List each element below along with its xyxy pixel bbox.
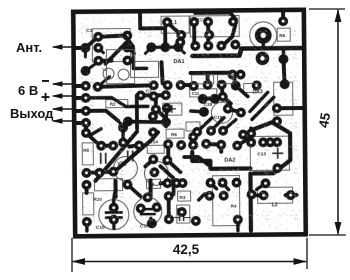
wire da1 row join: [151, 45, 178, 49]
wire vt stub: [154, 100, 158, 109]
wire Z1 top bus: [195, 13, 236, 20]
bottom-left extension line: [71, 238, 73, 272]
pads L1 cluster: [162, 17, 186, 47]
plus sign: [42, 93, 50, 101]
svg-text:6 В: 6 В: [18, 83, 38, 98]
wire top power band: [192, 48, 302, 56]
pads mid small: [148, 103, 172, 121]
pads minus branch: [93, 82, 103, 92]
PCB board outline: [73, 10, 306, 237]
wire minus branch diag: [98, 77, 110, 87]
pads band joints: [198, 94, 220, 117]
pads c15: [109, 203, 119, 225]
resistor R8 outline: [277, 28, 290, 41]
wire da2 elbow: [237, 133, 251, 145]
wire da3 to border: [277, 106, 303, 110]
wire vt2 out: [228, 109, 241, 113]
pad left extra: [80, 66, 90, 76]
wire da2 row: [206, 144, 221, 145]
pads bottom r3: [177, 207, 187, 217]
wire da3 diag 1: [250, 92, 268, 111]
height dimension top arrowhead: [335, 9, 342, 23]
wire C1 diag: [105, 41, 128, 64]
wire c13 row: [263, 140, 277, 144]
wire center elbow: [86, 133, 100, 146]
wire long diagonal A: [95, 131, 137, 180]
wire da2 diag c: [223, 120, 236, 131]
pads da3 col: [252, 79, 290, 113]
height dimension line: [337, 10, 339, 234]
capacitor C11 outline: [190, 89, 217, 97]
wire bottom border stub: [236, 220, 239, 231]
wire mid band drop: [233, 73, 236, 84]
right-bottom extension line: [309, 234, 346, 236]
transistor VT3 outline: [144, 161, 168, 185]
pads r10 col: [81, 180, 91, 227]
wire c16 bottom stub: [151, 218, 152, 223]
wire right long vertical: [248, 173, 253, 230]
height dimension bottom arrowhead: [335, 222, 342, 236]
pad mid link: [118, 123, 128, 133]
pads bottom left row: [81, 167, 118, 178]
wire antenna stub: [74, 46, 85, 50]
wire band joint row: [203, 97, 215, 101]
output arrow 1: [52, 106, 75, 112]
capacitor C3 plus mark: [168, 105, 176, 113]
pads T1 feed: [278, 16, 288, 26]
wire da2 diag a: [197, 118, 212, 132]
resistor R6 outline: [166, 129, 184, 138]
transistor VT1 outline: [113, 156, 137, 180]
pad T1 big: [255, 27, 272, 44]
wire T1 big pad link: [262, 44, 265, 48]
width dimension left arrowhead: [72, 258, 86, 265]
pads bottom stairs: [204, 178, 241, 201]
wire bottom right diag: [257, 183, 266, 189]
wire da1 stub: [178, 47, 184, 53]
wire C2 vertical: [161, 62, 162, 83]
resistor R9 outline: [82, 143, 93, 165]
pads left supply column: [81, 81, 91, 128]
wire bottom mid stairs: [199, 194, 210, 200]
wire output stub 1: [75, 109, 86, 113]
wire output run: [86, 111, 118, 121]
wire c17 row: [177, 181, 183, 185]
capacitor C9 outline: [244, 83, 258, 92]
wire da3 vert ext: [283, 48, 284, 84]
width dimension line: [73, 261, 306, 263]
wire mid vertical feed: [135, 95, 139, 128]
wire DA1 pin diag: [167, 22, 180, 42]
capacitor C5 symbol: [100, 153, 107, 164]
wire c1 inner 2: [127, 47, 134, 53]
right-top extension line: [309, 8, 345, 10]
wire bottom mid stairs3: [223, 183, 229, 190]
wire minus run: [98, 85, 154, 86]
wire ant to C1: [85, 37, 98, 48]
wire left extra diag: [85, 64, 95, 71]
pads mid bar: [123, 116, 171, 127]
wire Z1 curve: [221, 26, 235, 47]
resistor R2 outline: [106, 100, 128, 108]
wire mid C vertical: [133, 48, 146, 68]
capacitor C2 outline: [130, 61, 158, 77]
wire r7 row: [161, 181, 168, 185]
wire center pair: [101, 144, 113, 148]
inductor L4 outline: [258, 187, 293, 203]
pads center left: [81, 128, 118, 151]
wire bottom mid stairs2: [211, 183, 217, 189]
wire da2 drop: [219, 145, 223, 152]
pads da2 row: [201, 139, 242, 151]
pad mid row extra: [149, 91, 159, 101]
wire center tangle 1: [145, 159, 153, 166]
pads da2 left col: [188, 132, 198, 150]
wire bottom left row: [86, 172, 113, 173]
output arrow 2: [52, 118, 75, 124]
wire bottom left stub: [85, 222, 88, 231]
pads center c14: [134, 127, 186, 150]
pads da2 top: [192, 125, 248, 139]
wire plus run staircase: [86, 97, 148, 107]
wire da1 out: [181, 83, 190, 87]
wire top left short: [84, 48, 87, 57]
coil L2 outline: [103, 68, 114, 79]
wire C1 inner: [98, 48, 103, 53]
wire c15 top: [114, 189, 116, 208]
pads band row: [189, 80, 241, 91]
cap C17 outline: [177, 205, 190, 223]
wire C1 bottom: [98, 59, 111, 63]
wire band right diag: [236, 85, 248, 96]
wire gnd along border: [84, 123, 88, 133]
resistor R5 outline: [186, 122, 200, 131]
wire r10 col: [85, 185, 89, 193]
pad vt1 feed: [118, 138, 128, 148]
wire c15 bottom stub: [112, 220, 115, 229]
wire long diagonal B: [114, 139, 152, 171]
wire Z1 mid vertical: [206, 22, 210, 47]
resistor R1 outline: [192, 75, 214, 84]
wire center tangle 2: [156, 109, 166, 126]
wire c14 link: [152, 132, 158, 139]
wire C2 row: [141, 93, 166, 97]
wire C1 top row: [98, 36, 125, 37]
width dimension right arrowhead: [294, 258, 308, 265]
wire da3 vert: [283, 61, 284, 84]
wire mid bar riser: [166, 109, 167, 121]
wire top feed elbow: [140, 11, 165, 46]
wire c16 diag: [128, 184, 141, 196]
wire mid band: [191, 71, 233, 75]
capacitor C13 outline: [250, 136, 289, 170]
wire center elbow down: [160, 166, 173, 194]
capacitor C4 outline: [218, 75, 234, 84]
resistor R3 outline: [178, 191, 191, 201]
wire c15 thick vert: [114, 181, 118, 197]
pad c12 out: [191, 216, 201, 226]
pads bottom mid: [122, 179, 161, 213]
supply minus arrow: [52, 81, 75, 87]
pads T1 right: [278, 54, 288, 64]
inductor L1 outline: [161, 16, 189, 33]
pads mid row2: [136, 90, 171, 100]
wire vt1 diag: [167, 160, 180, 172]
wire plus stub: [75, 96, 86, 100]
capacitor C12 symbol: [173, 214, 191, 221]
capacitor C14 outline: [147, 145, 164, 153]
pads Z1 mid: [204, 30, 214, 40]
capacitor C1 outline: [92, 29, 130, 62]
wire band joint low: [191, 111, 204, 112]
wire DA1 row link: [145, 47, 151, 53]
capacitor C15 plates: [105, 211, 123, 219]
wire vt2 in: [222, 85, 231, 104]
resistor R7 outline: [146, 179, 160, 188]
pads bottom right: [232, 178, 295, 225]
pads Z1 bottom row: [190, 40, 240, 51]
wire mid bar: [128, 121, 166, 122]
capacitor C15 outline: [99, 200, 129, 230]
wire ring feed: [249, 128, 253, 133]
pads center lower: [148, 154, 172, 177]
svg-text:Выход: Выход: [10, 106, 54, 121]
pads DA1 left column: [146, 42, 183, 52]
pads C2 row: [149, 80, 186, 90]
wire T1 stub up: [281, 10, 285, 21]
crystal component outline: [94, 179, 122, 191]
capacitor C16 plates: [140, 208, 156, 216]
wire vt1 feed vertical: [121, 128, 125, 143]
wire mid link: [118, 121, 123, 127]
pads vt2: [218, 92, 246, 118]
transformer T1 outline: [250, 22, 277, 49]
wire bottom dumbbell: [167, 196, 171, 219]
IC DA2 body outline: [212, 176, 239, 226]
filter Z1 outline: [190, 16, 239, 37]
transistor VT2 outline: [211, 102, 232, 123]
wire center short diag: [89, 129, 101, 136]
pad c16 bottom: [147, 218, 157, 228]
svg-text:Ант.: Ант.: [16, 40, 42, 55]
supply plus arrow: [52, 93, 75, 99]
antenna arrow: [52, 44, 75, 50]
wire center run right: [184, 157, 208, 165]
wire da2 big L: [192, 151, 250, 169]
minus sign: [42, 80, 49, 82]
coil L3 outline: [118, 69, 129, 80]
wire c1 to mid: [125, 35, 133, 46]
wire octagon ring: [253, 122, 290, 173]
wire da2 diag b: [211, 118, 224, 131]
bottom-right extension line: [306, 238, 308, 269]
capacitor C6 symbol: [127, 150, 134, 161]
resistor R10 outline: [83, 193, 94, 215]
pads c13 area: [246, 116, 282, 173]
pads Z1 top row: [189, 17, 238, 27]
wire vt1 drop: [129, 145, 139, 146]
IC DA3 outline: [274, 82, 293, 115]
svg-text:42,5: 42,5: [173, 242, 200, 257]
wire minus stub: [75, 84, 86, 88]
pads antenna net: [80, 43, 90, 53]
pads da3 row: [228, 70, 246, 80]
svg-text:45: 45: [316, 111, 333, 129]
pad c16 top: [143, 192, 153, 202]
wire c16 verts: [148, 180, 152, 196]
capacitor C3 outline: [163, 103, 182, 115]
wire r6 vert: [166, 144, 170, 160]
wire output stub 2: [75, 121, 86, 125]
pad T1 big2: [256, 52, 270, 66]
coil pair box outline: [106, 49, 134, 83]
wire l2 right link: [286, 193, 297, 197]
wire da2 bus top: [191, 137, 195, 145]
wire l2 left link: [258, 193, 264, 197]
wire band drop 2: [206, 73, 210, 85]
wire da3 diag 2: [252, 97, 274, 119]
pads r7 row: [162, 178, 187, 188]
pads bottom dumbbell: [164, 191, 174, 224]
capacitor C13 plus mark: [272, 148, 283, 159]
capacitor C16 outline: [134, 197, 162, 225]
pads C1 cluster: [93, 31, 132, 66]
wire da3 row link: [233, 73, 241, 77]
wire Z1 left vertical: [192, 22, 196, 47]
